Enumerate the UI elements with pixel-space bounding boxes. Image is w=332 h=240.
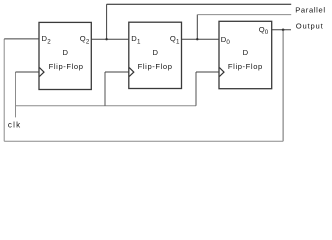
flip-flop U1 box [39, 22, 91, 89]
label U3 "D Flip-Flop" [228, 48, 263, 71]
wire clock into U3 [196, 71, 219, 73]
wire clock riser U2 [104, 72, 106, 106]
svg-text:D: D [243, 48, 249, 57]
svg-text:D: D [62, 48, 68, 57]
label U1 "D Flip-Flop" [49, 48, 84, 71]
wire clock into U1 [16, 71, 40, 73]
wire parallel tap riser from node Q1 [196, 15, 198, 40]
junction node at Q0 feedback tap [282, 29, 285, 32]
wire feedback bottom rail [4, 140, 283, 142]
wire parallel output line 1 [107, 3, 292, 5]
svg-text:clk: clk [8, 121, 21, 130]
flip-flop U2 box [129, 22, 182, 88]
svg-text:Parallel: Parallel [295, 6, 326, 15]
wire Q2 to D1 [91, 38, 129, 40]
flip-flop U3 box [219, 21, 272, 88]
svg-text:D: D [152, 48, 158, 57]
wire feedback right riser [282, 30, 284, 142]
svg-text:Flip-Flop: Flip-Flop [138, 62, 173, 71]
wire Q0 output [272, 29, 291, 31]
wire parallel tap riser from node Q2 [106, 4, 108, 39]
clock input triangle U1 [39, 68, 44, 77]
wire clk stub [15, 72, 17, 117]
clock input triangle U3 [219, 68, 224, 77]
wire clock into U2 [105, 71, 129, 73]
wire feedback left riser [3, 39, 5, 141]
svg-text:Output: Output [296, 22, 324, 31]
wire clock rail [16, 105, 197, 107]
wire Q1 to D0 [182, 38, 220, 40]
wire feedback into D2 [4, 38, 39, 40]
svg-text:Flip-Flop: Flip-Flop [49, 62, 84, 71]
junction node at Q1 tap [196, 38, 198, 40]
svg-text:Flip-Flop: Flip-Flop [228, 62, 263, 71]
wire parallel output line 2 [197, 14, 291, 16]
label U2 "D Flip-Flop" [138, 48, 173, 71]
wire clock riser U3 [195, 72, 197, 106]
clock input triangle U2 [129, 68, 134, 77]
junction node at Q2 tap [105, 38, 107, 40]
